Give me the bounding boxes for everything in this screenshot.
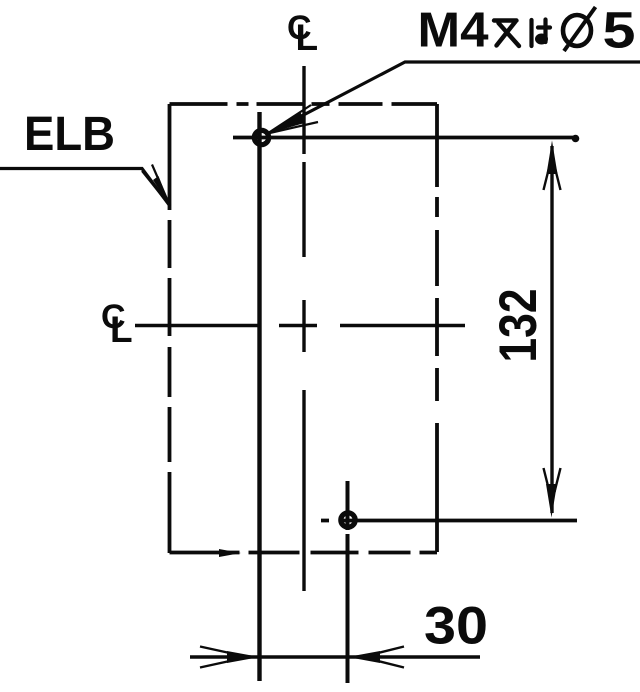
horizontal body centerline — [135, 324, 465, 327]
top mounting hole — [254, 130, 268, 144]
dimension line 30 (horizontal, tails outside) — [190, 655, 480, 658]
vertical hole centerline through top hole (long solid) — [257, 112, 261, 681]
leader line for ELB label — [0, 169, 170, 207]
kanji MATA (or) drawn strokes — [494, 21, 519, 47]
top extension line through top hole — [233, 136, 578, 140]
bottom mounting hole — [341, 513, 355, 527]
ELB body outline: right edge — [435, 104, 439, 552]
bottom extension line through bottom hole — [321, 519, 577, 523]
svg-text:30: 30 — [424, 597, 488, 656]
svg-text:M4: M4 — [418, 4, 489, 58]
leader line for M4 label — [268, 62, 640, 134]
vertical hole centerline through bottom hole — [346, 481, 350, 683]
small arrow on bottom edge at hole line — [219, 549, 241, 557]
svg-text:5: 5 — [603, 2, 636, 59]
left arrowhead of 30 dimension (points right at hole line) — [200, 647, 232, 668]
arrowhead top of 132 dimension — [544, 166, 561, 190]
arrowhead bottom of 132 dimension — [544, 468, 561, 492]
dot at right end of top extension line — [572, 135, 580, 143]
ELB body outline dashed rectangle: top edge — [170, 102, 438, 106]
svg-text:L: L — [296, 17, 319, 58]
right arrowhead of 30 dimension (points left at hole line) — [376, 647, 404, 668]
diameter symbol — [563, 15, 591, 46]
arrowhead of M4 leader at top hole — [268, 105, 319, 134]
ELB body outline: left edge — [168, 104, 172, 553]
ELB body outline: bottom edge — [170, 551, 438, 555]
hiragana HA drawn strokes — [532, 20, 551, 47]
dimension line 132 (vertical) — [550, 146, 553, 513]
svg-text:ELB: ELB — [24, 108, 115, 161]
svg-text:132: 132 — [489, 289, 548, 363]
vertical body centerline (chain line below top CL symbol) — [302, 66, 305, 591]
svg-text:L: L — [110, 309, 133, 350]
arrowhead of ELB leader at body edge — [142, 165, 170, 207]
